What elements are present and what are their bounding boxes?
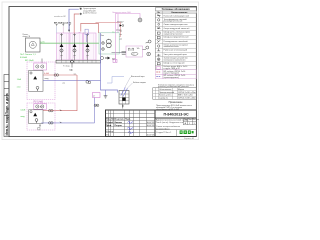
- bay internals 2: [73, 33, 76, 60]
- svg-text:Тн 1сш: Тн 1сш: [63, 66, 70, 68]
- svg-text:Шкаф на стене здания: Шкаф на стене здания: [164, 62, 185, 65]
- red loop over bay 3: [81, 23, 99, 33]
- star symbols: [80, 8, 82, 16]
- svg-text:Листов: Листов: [192, 119, 199, 121]
- small square below lower box: [38, 128, 40, 130]
- svg-text:В 40кВ: В 40кВ: [20, 57, 27, 59]
- blue wire from star: [69, 9, 79, 30]
- svg-text:сч: сч: [120, 34, 122, 36]
- left margin stamp column: [4, 75, 9, 137]
- svg-text:10.07.13: 10.07.13: [147, 134, 156, 136]
- callout text: [83, 8, 97, 15]
- svg-text:№ докум.: № докум.: [115, 118, 125, 121]
- svg-text:опора СВ: опора СВ: [23, 36, 31, 38]
- symbols right of metering box: [143, 49, 147, 51]
- blue wire lower: [41, 122, 94, 124]
- svg-text:Wh: Wh: [137, 48, 140, 50]
- switchgear bay 1: [57, 33, 70, 60]
- svg-text:П-840/2013-ЭС: П-840/2013-ЭС: [163, 113, 189, 117]
- sub box with meters (upper): [34, 63, 47, 70]
- svg-text:в трубе ПНД д.32: в трубе ПНД д.32: [164, 68, 181, 70]
- RU-10kV dashed pink box: [27, 62, 55, 100]
- svg-text:Кабель учёта: Кабель учёта: [159, 95, 172, 97]
- legend bottom rows (pink bordered): [155, 70, 196, 79]
- svg-text:Шкаф распределительный: Шкаф распределительный: [164, 36, 189, 39]
- svg-text:cos: cos: [132, 54, 135, 56]
- svg-text:Разъединитель линейный: Разъединитель линейный: [164, 40, 188, 43]
- svg-text:10.07.13: 10.07.13: [147, 125, 156, 127]
- title block left grid: [106, 110, 156, 137]
- tick on red lower wire: [60, 110, 62, 111]
- svg-text:Условные обозначения: Условные обозначения: [162, 8, 190, 11]
- svg-text:железобетонная: железобетонная: [164, 46, 179, 48]
- pink overhead lines: [116, 14, 141, 63]
- transformer box left (KTP): [26, 38, 41, 52]
- svg-text:10кВ: 10кВ: [17, 79, 22, 81]
- svg-text:однолинейная: однолинейная: [156, 127, 169, 130]
- svg-text:СИП-4 2х16 L=25м: СИП-4 2х16 L=25м: [178, 92, 196, 94]
- red down wire to lower switchboard: [42, 75, 78, 111]
- svg-text:Подп. и дата: Подп. и дата: [5, 93, 9, 114]
- svg-text:Кабель марки: Кабель марки: [133, 82, 146, 84]
- svg-text:Том 4 (часть). Наружные сети: Том 4 (часть). Наружные сети: [156, 122, 184, 124]
- svg-text:ВВГнг 3х6 L=8м: ВВГнг 3х6 L=8м: [178, 95, 193, 97]
- substation green box: [99, 33, 119, 54]
- output cluster below substation: [101, 57, 104, 60]
- bay internals 1: [60, 33, 63, 60]
- blue feeder wire from box1: [43, 79, 101, 81]
- svg-text:0,4кВ: 0,4кВ: [44, 73, 50, 75]
- svg-text:ВЛ-10кВ: ВЛ-10кВ: [25, 60, 34, 62]
- blue hatch marks on ground unit: [121, 88, 128, 97]
- title block frame: [106, 110, 197, 137]
- breaker box (lower): [29, 110, 43, 124]
- RU-0,4 dashed pink box (lower): [27, 103, 55, 130]
- legend symbols column: [157, 15, 161, 65]
- svg-text:Н.контр.: Н.контр.: [106, 131, 114, 133]
- signature scribble (blue): [127, 121, 134, 133]
- pole symbol circle: [138, 18, 142, 22]
- green line TM-2,5: [40, 42, 99, 44]
- svg-text:Формат А3: Формат А3: [184, 137, 195, 140]
- svg-text:РУ-0,4кВ: РУ-0,4кВ: [34, 102, 44, 104]
- svg-text:ввод: ввод: [21, 116, 26, 118]
- svg-text:Рубильник отключающий: Рубильник отключающий: [164, 49, 188, 52]
- metering magenta box: [126, 46, 143, 57]
- svg-text:з1: з1: [60, 57, 62, 59]
- svg-text:отпайка от ВЛ: отпайка от ВЛ: [54, 15, 67, 18]
- svg-text:з2: з2: [73, 57, 75, 59]
- blue step wire: [107, 77, 124, 84]
- svg-text:10.07.13: 10.07.13: [147, 122, 156, 124]
- switchgear bay 3: [84, 33, 97, 60]
- svg-text:кт: кт: [79, 32, 81, 34]
- blue wire arrowhead: [68, 30, 70, 32]
- svg-text:рн: рн: [120, 39, 122, 41]
- svg-text:Опора воздушной линии жб: Опора воздушной линии жб: [164, 27, 191, 30]
- svg-text:Пров.: Пров.: [106, 125, 112, 127]
- svg-text:Петров: Петров: [115, 125, 123, 127]
- svg-text:откл: откл: [17, 86, 21, 88]
- svg-text:Провод вводной: Провод вводной: [159, 91, 174, 94]
- svg-text:Марка: Марка: [178, 89, 185, 91]
- svg-text:кт: кт: [93, 96, 95, 98]
- three feeder ticks: [56, 24, 71, 26]
- svg-text:Утв.: Утв.: [106, 134, 110, 136]
- bus drop wire: [71, 63, 73, 68]
- svg-text:щс: щс: [70, 69, 74, 72]
- title block right grid (lit/list/listov): [155, 118, 196, 137]
- ground branch: [105, 90, 107, 96]
- svg-text:ф.14 ПС Южная: ф.14 ПС Южная: [83, 12, 97, 15]
- left connector to metering box: [112, 52, 127, 54]
- svg-text:к дому 2а: к дому 2а: [159, 97, 169, 99]
- svg-text:повторного заземления: повторного заземления: [164, 59, 186, 61]
- breaker box (upper): [29, 71, 43, 92]
- svg-text:0,4кВ: 0,4кВ: [21, 109, 26, 111]
- svg-text:наружной установки: наружной установки: [164, 33, 183, 36]
- ct circles on blue wire: [86, 81, 89, 84]
- svg-text:2Т: 2Т: [63, 83, 66, 85]
- svg-text:Наименование: Наименование: [171, 12, 188, 14]
- svg-text:ПнТ Сигнал 1,1: ПнТ Сигнал 1,1: [20, 54, 36, 56]
- sub box with meters (lower): [34, 104, 47, 110]
- svg-text:з3: з3: [86, 57, 88, 59]
- red feeder wire from box1: [43, 74, 77, 76]
- title block small texts left: [106, 118, 155, 137]
- salmon wire to transformer: [96, 22, 121, 36]
- legend row texts: [164, 14, 191, 79]
- svg-text:Подп.: Подп.: [125, 119, 131, 121]
- switchgear bay 2: [70, 33, 83, 60]
- svg-text:Разраб.: Разраб.: [106, 121, 114, 124]
- svg-text:Узел учёта вводной цепи: Узел учёта вводной цепи: [164, 53, 187, 56]
- svg-text:существующей ВЛ-0,4кВ: существующей ВЛ-0,4кВ: [156, 108, 180, 111]
- long blue wire to ground unit: [101, 33, 118, 93]
- paper edge: [2, 2, 199, 140]
- svg-text:Пыльный газозащищенный: Пыльный газозащищенный: [164, 14, 189, 17]
- ground unit bottom terminal: [122, 104, 124, 109]
- legend pink square symbol: [157, 66, 160, 69]
- svg-text:Инв.№ подл.: Инв.№ подл.: [5, 114, 9, 136]
- ct circles on red wire: [54, 74, 56, 76]
- ground symbol: [104, 96, 108, 98]
- svg-text:Линия коммуникационная: Линия коммуникационная: [164, 24, 188, 26]
- green company logo: [180, 130, 194, 134]
- svg-text:ТП №7: ТП №7: [117, 21, 124, 24]
- three feeder lines: [56, 27, 58, 34]
- pink overhead line over substation: [115, 33, 117, 62]
- ct circles on blue lower wire: [49, 122, 51, 124]
- svg-text:Выносной щит: Выносной щит: [131, 75, 145, 78]
- bus diamond node: [70, 60, 73, 63]
- svg-text:Примечание: Примечание: [169, 101, 184, 104]
- ct circles on riser: [94, 104, 96, 106]
- magenta meter cluster on riser: [93, 93, 101, 98]
- connector bus to RU box: [41, 59, 43, 64]
- busbar: [56, 60, 101, 63]
- lit list listov: [184, 119, 199, 121]
- tick on blue lower wire: [60, 122, 62, 123]
- blue riser from lower box: [94, 98, 96, 123]
- legend table top right: [155, 8, 196, 70]
- small x mark below lower box: [39, 125, 41, 127]
- bay internals 3: [86, 33, 89, 60]
- svg-text:СИП-4 2х16 L=40м: СИП-4 2х16 L=40м: [178, 97, 196, 99]
- legend colored wire samples: [156, 71, 161, 73]
- svg-text:Стадия П Лист 1: Стадия П Лист 1: [156, 132, 172, 134]
- pink marks under bay circles: [60, 57, 88, 59]
- svg-text:Иванов: Иванов: [115, 122, 123, 124]
- red wire from star into bay 2: [74, 14, 79, 34]
- svg-text:ввод: ввод: [45, 78, 50, 80]
- ct circles on red lower wire: [49, 110, 51, 112]
- grounding device box: [119, 91, 129, 105]
- drawing frame: [9, 7, 196, 137]
- transformer 1T (two circles): [102, 39, 111, 50]
- blue VT box: [85, 29, 88, 34]
- svg-text:распределительный: распределительный: [164, 20, 183, 23]
- svg-text:Обозначение: Обозначение: [159, 89, 172, 91]
- svg-text:(проектируемая): (проектируемая): [164, 77, 180, 79]
